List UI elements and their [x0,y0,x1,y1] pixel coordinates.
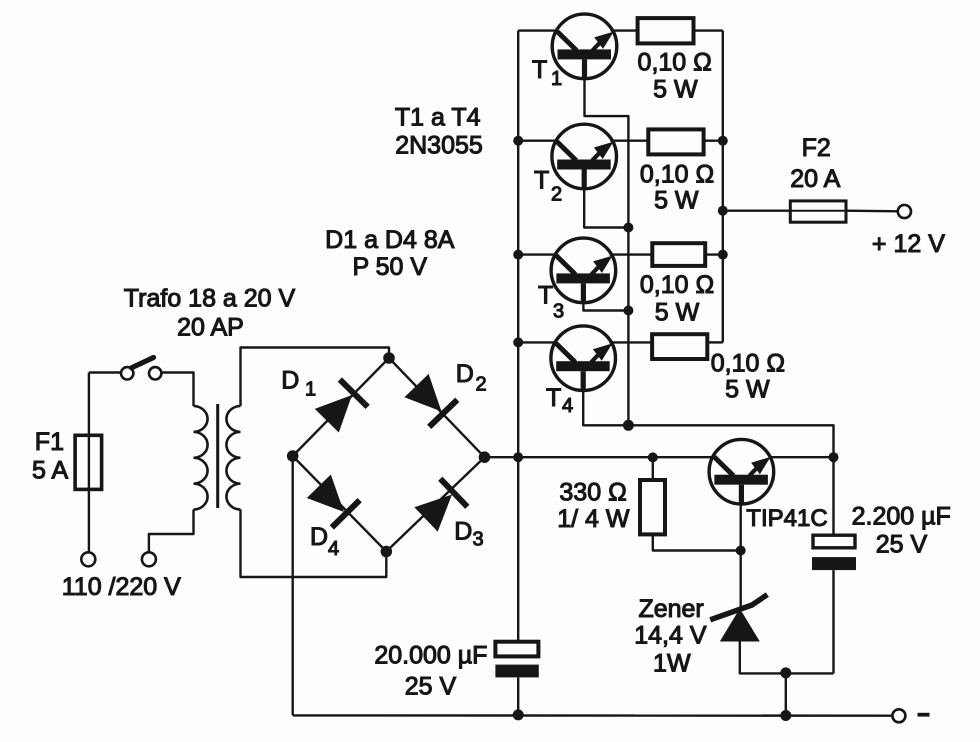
label R2 power [654,186,699,214]
svg-text:3: 3 [473,529,484,551]
wire [723,209,791,211]
node [513,452,523,462]
label Trafo 18 a 20 V [124,285,296,313]
label 14,4 V [634,622,707,650]
wire [241,510,387,578]
wire [694,29,723,31]
svg-text:D1 a D4 8A: D1 a D4 8A [325,226,455,254]
wire [585,79,629,426]
svg-text:0,10 Ω: 0,10 Ω [711,349,785,377]
wire [609,341,652,343]
wire [485,456,713,458]
svg-text:4: 4 [562,395,573,417]
wire [518,29,558,31]
transistor T4 2N3055 [551,326,616,392]
wire [88,373,90,553]
svg-text:F2: F2 [802,134,831,162]
wire [707,341,723,343]
wire [292,456,294,715]
wire [785,673,787,715]
svg-text:20.000 µF: 20.000 µF [374,642,487,670]
resistor R3 0,10 ohm [652,243,705,266]
wire [704,139,723,141]
wire [583,391,833,458]
svg-text:3: 3 [553,301,564,323]
wire [517,457,519,642]
svg-text:1W: 1W [653,650,691,678]
label D1 [281,366,316,400]
label 25 V [405,673,457,701]
fuse F1 [75,435,102,489]
label 20 A [790,165,840,193]
svg-text:D: D [310,523,328,551]
terminal AC 1 [81,552,95,566]
label D3 [454,517,483,550]
switch S1 [121,358,161,380]
label R3 value [640,271,714,299]
svg-text:0,10 Ω: 0,10 Ω [638,49,712,77]
wire [610,139,648,141]
label R1 value [638,49,712,77]
fuse F2 [790,201,846,222]
node [513,250,523,260]
node [513,709,524,720]
label minus [918,713,930,717]
label P 50 V [352,253,427,281]
wire [740,641,834,673]
label 5 A [32,457,68,485]
wire [653,534,741,550]
wire [610,253,653,255]
transistor Q5 TIP41C [709,439,774,505]
wire [770,456,834,458]
wire [518,341,557,343]
svg-text:20 A: 20 A [790,165,840,193]
label R4 power [725,375,770,403]
diode D4 [293,456,387,552]
label 330 ohm [559,479,626,507]
wire [652,457,654,480]
svg-text:Trafo 18 a 20 V: Trafo 18 a 20 V [124,285,296,313]
label R3 power [655,299,700,327]
transformer TR1 primary winding [194,406,208,510]
node [780,710,791,721]
node [623,306,633,316]
svg-text:+ 12 V: + 12 V [872,230,945,258]
svg-text:0,10 Ω: 0,10 Ω [640,161,714,189]
node [718,206,728,216]
wire [832,457,834,535]
svg-text:5 A: 5 A [32,457,68,485]
label T2 [534,166,562,205]
label T1 a T4 [395,104,481,132]
node [780,667,791,678]
wire [517,677,519,715]
svg-text:330 Ω: 330 Ω [559,479,626,507]
label 20 AP [177,314,244,342]
terminal AC 2 [142,552,156,566]
svg-text:2: 2 [551,184,562,206]
label D4 [310,523,339,560]
diode D3 [386,457,484,551]
wire [740,504,742,551]
wire [241,348,390,407]
node [513,337,523,347]
svg-text:Zener: Zener [638,595,703,623]
svg-text:5 W: 5 W [653,76,698,104]
capacitor C2 2200uF [812,535,856,570]
svg-text:5 W: 5 W [654,186,699,214]
wire [705,253,723,255]
label 2N3055 [395,132,483,160]
resistor R2 0,10 ohm [648,129,703,154]
svg-text:T: T [534,166,549,194]
transistor T1 2N3055 [552,14,617,80]
wire [293,714,893,717]
diode D2 [389,358,485,457]
diode D1 [293,358,389,456]
label F1 [35,428,64,456]
label 110 /220 V [62,573,181,601]
svg-text:25 V: 25 V [405,673,457,701]
wire [518,139,558,141]
node [829,452,839,462]
label R2 value [640,161,714,189]
svg-text:25 V: 25 V [876,530,928,558]
svg-text:1/ 4 W: 1/ 4 W [557,505,630,533]
svg-text:1: 1 [305,379,316,401]
svg-text:2.200 µF: 2.200 µF [852,503,951,531]
node bridge bottom [381,546,393,558]
terminal +12V [898,205,911,218]
svg-text:TIP41C: TIP41C [746,505,827,532]
wire [584,190,628,228]
wire [611,29,638,31]
svg-text:P 50 V: P 50 V [352,253,427,281]
label R4 value [711,349,785,377]
wire [740,551,742,609]
node [718,250,728,260]
svg-text:D: D [281,366,299,394]
svg-text:20 AP: 20 AP [177,314,244,342]
zener diode ZD1 14,4V [710,595,767,642]
label T3 [538,281,564,322]
terminal minus [892,709,905,722]
svg-text:F1: F1 [35,428,64,456]
label 2.200 uF [852,503,951,531]
svg-text:14,4 V: 14,4 V [634,622,707,650]
svg-text:4: 4 [328,538,339,560]
svg-text:T1 a T4: T1 a T4 [395,104,481,132]
wire [161,373,193,407]
resistor R1 0,10 ohm [638,18,694,43]
transformer TR1 core [216,404,219,508]
wire [846,209,898,212]
label 25 V [876,530,928,558]
wire [89,371,121,373]
transistor T2 2N3055 [552,124,617,190]
wire [517,31,519,458]
label D1 a D4 8A [325,226,455,254]
node [718,136,728,146]
wire [149,510,194,553]
node bridge right [479,451,491,463]
node [623,420,634,431]
node [648,452,658,462]
svg-text:5 W: 5 W [725,375,770,403]
label 20.000 uF [374,642,487,670]
label T4 [546,384,573,417]
wire [722,31,724,343]
resistor R4 0,10 ohm [652,334,707,359]
node [623,223,633,233]
node bridge left [287,450,299,462]
svg-text:5 W: 5 W [655,299,700,327]
capacitor C1 20000uF [495,642,538,678]
wire [832,570,834,673]
svg-text:110 /220 V: 110 /220 V [62,573,181,601]
label F2 [802,134,831,162]
label Zener [638,595,703,623]
svg-text:T: T [538,281,553,309]
node bridge top [383,352,395,364]
svg-text:1: 1 [551,68,562,90]
transformer TR1 secondary winding [226,406,240,510]
label 1W [653,650,691,678]
svg-text:T: T [546,384,561,412]
svg-text:T: T [532,56,547,84]
node [513,136,523,146]
label + 12 V [872,230,945,258]
svg-text:2: 2 [476,374,487,396]
svg-text:0,10 Ω: 0,10 Ω [640,271,714,299]
label D2 [456,360,487,396]
wire [518,253,557,255]
label 1/4 W [557,505,630,533]
label R1 power [653,76,698,104]
svg-text:D: D [454,517,472,545]
svg-text:2N3055: 2N3055 [395,132,483,160]
resistor R5 330 ohm [640,480,665,534]
label TIP41C [746,505,827,532]
transistor T3 2N3055 [551,238,616,304]
label T1 [532,56,562,90]
wire [583,303,628,311]
node [736,546,746,556]
svg-text:D: D [456,360,474,388]
